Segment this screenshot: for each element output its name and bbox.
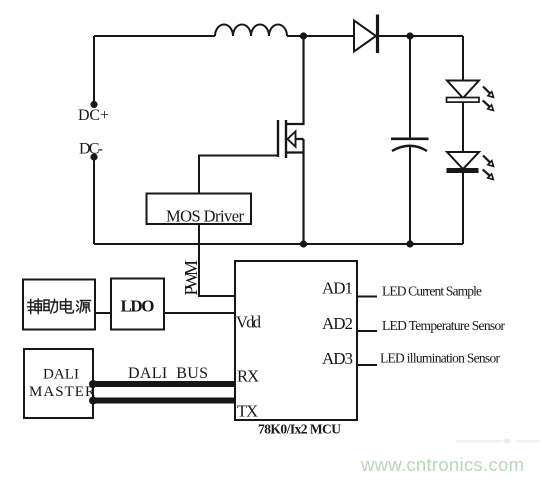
- diode D1: [354, 15, 378, 54]
- node: capacitor/ground junction: [406, 240, 413, 247]
- capacitor C1: [391, 36, 429, 244]
- watermark faint smudges: [456, 439, 540, 444]
- node: inductor/drain junction: [300, 32, 307, 39]
- svg-text:LED illumination Sensor: LED illumination Sensor: [380, 351, 501, 366]
- wire: AD3 stub: [357, 364, 377, 366]
- glyph 助: [44, 300, 58, 314]
- node: output top junction: [406, 32, 413, 39]
- wire: LED string top: [462, 36, 464, 81]
- node DC- terminal: [90, 153, 97, 160]
- LED D2: [447, 81, 494, 111]
- wire: LED string middle: [462, 102, 464, 153]
- wire: rail diode to right corner: [379, 35, 463, 37]
- wire PWM: driver to MCU: [199, 224, 235, 296]
- svg-text:RX: RX: [237, 367, 259, 386]
- box: auxiliary power supply: [23, 280, 95, 330]
- DALI bus line 2: [89, 397, 235, 405]
- glyph 电: [61, 299, 74, 313]
- svg-text:LED Temperature Sensor: LED Temperature Sensor: [382, 318, 506, 333]
- svg-text:PWM: PWM: [181, 260, 201, 296]
- LED D3: [447, 152, 494, 180]
- text 辅助电源 (drawn glyphs): [28, 299, 91, 314]
- svg-text:MOS Driver: MOS Driver: [166, 207, 245, 226]
- MCU U1 box: [235, 261, 357, 420]
- wire: rail inductor to diode: [287, 35, 354, 37]
- svg-text:LDO: LDO: [121, 297, 155, 316]
- svg-text:AD1: AD1: [322, 279, 353, 298]
- svg-text:AD2: AD2: [322, 314, 353, 333]
- LDO U3 box: [111, 279, 164, 330]
- svg-text:Vdd: Vdd: [236, 313, 262, 332]
- transistor Q1 (N-MOSFET): [278, 36, 304, 244]
- svg-text:78K0/Ix2 MCU: 78K0/Ix2 MCU: [258, 422, 341, 437]
- wire: AD2 stub: [357, 330, 377, 332]
- inductor L1: [215, 25, 287, 37]
- glyph 源: [77, 301, 91, 313]
- DALI MASTER box: [24, 349, 93, 418]
- wire: DC+ lead: [93, 36, 95, 104]
- svg-text:www.cntronics.com: www.cntronics.com: [360, 454, 524, 475]
- glyph 辅: [28, 299, 43, 314]
- wire: DC- lead down: [93, 157, 95, 244]
- wire: AD1 stub: [357, 296, 377, 298]
- svg-text:TX: TX: [237, 402, 258, 421]
- node DC+ terminal: [90, 101, 97, 108]
- svg-text:MASTER: MASTER: [29, 384, 95, 400]
- wire: LED string bottom: [462, 172, 464, 244]
- node: source/ground junction: [300, 240, 307, 247]
- MOS Driver box U2: [147, 194, 252, 225]
- DALI bus line 1: [89, 380, 235, 388]
- wire: bottom rail: [94, 243, 463, 245]
- svg-text:DALI: DALI: [43, 367, 79, 383]
- svg-text:AD3: AD3: [322, 349, 353, 368]
- wire: top rail left segment: [94, 35, 215, 37]
- wire: gate to driver: [199, 156, 278, 194]
- svg-text:DC+: DC+: [78, 107, 109, 124]
- wire: aux to LDO: [95, 312, 111, 314]
- svg-text:DALI BUS: DALI BUS: [128, 365, 208, 382]
- svg-text:LED Current Sample: LED Current Sample: [382, 284, 482, 299]
- svg-text:DC-: DC-: [79, 141, 103, 158]
- wire Vdd: LDO to MCU: [164, 312, 235, 314]
